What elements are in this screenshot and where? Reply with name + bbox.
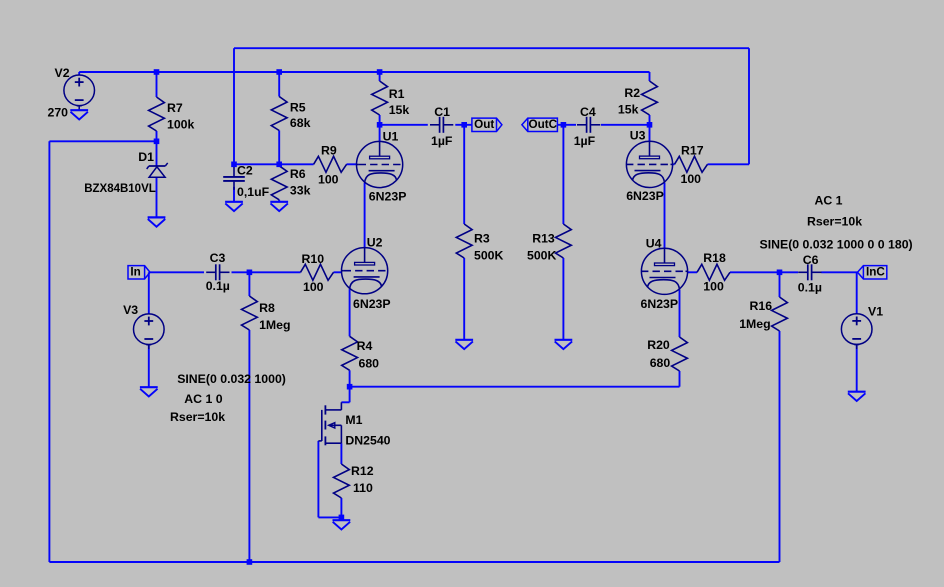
svg-text:100: 100 [681,172,702,186]
wire R9 to U1 grid [347,163,357,165]
wire M1 ground stub [340,517,342,520]
resistor R16 [772,297,788,331]
svg-text:0,1uF: 0,1uF [237,185,270,199]
wire right loop vertical x=749 [748,48,750,164]
svg-text:SINE(0 0.032 1000 0 0 180): SINE(0 0.032 1000 0 0 180) [760,238,913,252]
port flag OutC [522,118,558,131]
component value and name labels [48,66,913,495]
ground under V2 [70,110,88,119]
svg-text:R1: R1 [389,87,405,101]
triode U1 [356,141,403,187]
wire R4 to drain junction [349,370,351,386]
wire R8 to bottom rail [248,330,250,562]
wire top rail B+ y=72 [79,71,649,73]
svg-text:U1: U1 [383,130,399,144]
svg-text:U3: U3 [630,129,646,143]
wire R10 to U2 grid [334,271,342,273]
wire R5 top stub [278,72,280,97]
wire C2 bottom stub [233,187,235,202]
svg-text:R2: R2 [624,86,640,100]
ground under C2 [225,202,243,211]
svg-text:500K: 500K [474,249,504,263]
svg-text:AC 1: AC 1 [815,194,843,208]
wire V1 to ground [856,345,858,392]
svg-text:15k: 15k [389,103,410,117]
junction R6 grid [276,162,282,168]
svg-text:DN2540: DN2540 [345,433,390,447]
ground under V1 [848,392,866,401]
wire InC drop to V1 [856,272,858,314]
svg-text:1Meg: 1Meg [739,317,770,331]
wire U1 cathode to U2 plate [364,183,366,248]
svg-text:68k: 68k [290,116,311,130]
ground under R13 [555,340,573,349]
wire U4 grid to R18 [688,271,698,273]
svg-text:BZX84B10VL: BZX84B10VL [84,183,156,195]
wire R16 top stub [779,272,781,297]
svg-text:C4: C4 [580,105,596,119]
wire In flag to C3 [149,271,204,273]
svg-text:6N23P: 6N23P [641,297,679,311]
resistor R10 [301,264,334,280]
svg-text:R13: R13 [532,232,555,246]
svg-text:6N23P: 6N23P [626,189,664,203]
capacitor C6 [798,264,821,280]
wire R2 bottom stub [649,115,651,125]
wire C6 junction feed [780,271,799,273]
svg-text:0.1µ: 0.1µ [206,279,230,293]
svg-text:C2: C2 [237,164,253,178]
junction D1 R7 [154,139,160,145]
svg-text:R12: R12 [351,464,374,478]
triode U2 [341,248,388,294]
wire U1 plate lead [379,125,381,142]
svg-text:R4: R4 [357,339,373,353]
wire U4 cathode to R20 [679,290,681,337]
wire R5 bottom stub [278,131,280,165]
zener diode D1 [147,163,168,177]
wire left rail vertical x=49.4 [48,141,50,562]
ground under M1 [333,520,351,529]
capacitor C1 [430,117,453,133]
resistor R3 [456,224,472,258]
wire R13 drop x=563.4 [562,125,564,224]
junction R18 C6 R16 [777,270,783,276]
port flag Out [472,118,502,131]
resistor R6 [271,166,287,200]
wire C4 to R2 y=124.8 [601,124,650,126]
resistor R1 [372,81,388,115]
svg-text:100: 100 [703,280,724,294]
wire C2 top stub [233,163,235,166]
wire M1 drain jog horizontal [341,401,349,403]
wire M1 gate drop x=318.4 [317,441,319,518]
svg-text:270: 270 [48,105,69,119]
wire bottom rail y=562 [49,561,779,563]
wire R18 to C6 junction [730,271,780,273]
wire C6 to InC flag [821,271,857,273]
junction R4 M1 drain [347,384,353,390]
svg-text:R7: R7 [167,101,183,115]
resistor R9 [314,156,347,172]
junction R1 top [377,69,383,75]
wire R13 to ground [562,258,564,340]
wire V3 to ground [148,345,150,387]
svg-text:R20: R20 [647,338,670,352]
svg-text:100k: 100k [167,117,195,131]
wire R16 to bottom rail [779,331,781,562]
wire R17 to right loop [708,163,750,165]
wire R1 top stub [379,72,381,81]
resistor R13 [556,224,572,258]
wire U3 grid to R17 [673,163,675,165]
junction R1 U1 plate [377,122,383,128]
resistor R5 [271,97,287,131]
junction R7 top [154,69,160,75]
svg-text:OutC: OutC [529,118,558,131]
svg-text:SINE(0 0.032 1000): SINE(0 0.032 1000) [177,372,286,386]
port flag InC [858,266,887,279]
resistor R8 [242,296,258,330]
svg-text:R6: R6 [290,167,306,181]
svg-text:680: 680 [359,357,380,371]
wire R12 bottom stub [340,498,342,517]
junction C3 R8 [247,270,253,276]
svg-text:0.1µ: 0.1µ [798,280,822,294]
svg-text:100: 100 [303,280,324,294]
ground under D1 [148,217,166,226]
wire V2 top stub [78,72,80,75]
resistor R4 [342,336,358,370]
svg-text:R9: R9 [321,144,337,158]
wire R2 top stub [649,72,651,81]
ground under R6 [270,202,288,211]
svg-text:C1: C1 [434,105,450,119]
svg-text:R10: R10 [302,252,325,266]
wire R3 to ground [463,258,465,340]
voltage source V2 [64,75,95,110]
resistor R7 [149,97,165,131]
junction C1 Out [461,122,467,128]
resistor R20 [672,337,688,371]
svg-text:33k: 33k [290,183,311,197]
junction C2 grid [231,162,237,168]
wire OutC junction to C4 [557,124,576,126]
svg-text:C6: C6 [803,253,819,267]
svg-text:In: In [130,265,140,278]
svg-text:R5: R5 [290,100,306,114]
svg-text:V1: V1 [868,304,883,318]
svg-text:D1: D1 [138,150,154,164]
wire grid rail C2-R9 y=164.3 [234,163,314,165]
wire R7 top stub [156,72,158,97]
junction R8 bottom rail [247,559,253,565]
wire R3 drop x=464.2 [463,125,465,224]
port flag In [128,266,150,279]
wire In flag drop to V3 [148,272,150,314]
ground under V3 [140,387,158,396]
svg-text:Rser=10k: Rser=10k [807,215,862,229]
wire D1 top stub [156,141,158,166]
wire second rail y=48 [234,47,749,49]
svg-text:V2: V2 [55,66,70,80]
svg-text:1µF: 1µF [431,134,453,148]
svg-text:100: 100 [318,173,339,187]
svg-text:R3: R3 [474,232,490,246]
wire R8 top stub [248,272,250,296]
svg-text:InC: InC [866,265,885,278]
wire U2 cathode to R4 [349,289,351,336]
svg-text:M1: M1 [345,413,362,427]
wire R7 bottom stub [156,131,158,141]
wire U3 plate lead [649,125,651,142]
wire D1 junction to left rail y=141.3 [49,140,156,142]
svg-text:Out: Out [474,118,494,131]
wire U3 cathode to U4 plate [664,183,666,249]
junction OutC C4 [561,122,567,128]
resistor R2 [642,81,658,115]
svg-text:AC 1 0: AC 1 0 [184,392,222,406]
resistor R17 [675,156,708,172]
triode U4 [641,248,688,294]
junction M1 ground [339,515,345,521]
svg-text:680: 680 [650,356,671,370]
wire C3 to R8 junction [232,271,250,273]
capacitor C3 [206,264,229,280]
svg-text:U4: U4 [646,236,662,250]
wire M1 source to R12 [340,443,342,464]
resistor R18 [697,264,730,280]
wire R20 bottom stub [679,371,681,387]
voltage source V1 [841,314,872,349]
capacitor C2 [223,167,245,190]
svg-text:6N23P: 6N23P [353,297,391,311]
svg-text:R8: R8 [259,301,275,315]
junction R5 top [276,69,282,75]
wire R1 bottom stub [379,115,381,125]
svg-text:U2: U2 [367,236,383,250]
svg-text:R17: R17 [681,143,704,157]
svg-text:1µF: 1µF [574,134,596,148]
svg-text:R16: R16 [750,299,773,313]
wire cathode return rail y=386.7 [350,386,680,388]
voltage source V3 [134,314,165,349]
wire gate to source ground link [318,516,341,518]
ground under R3 [455,340,473,349]
wire R1 junction to C1 y=124.8 [380,124,428,126]
svg-text:15k: 15k [618,102,639,116]
wire M1 drain jog vertical [349,387,351,403]
svg-text:6N23P: 6N23P [369,190,407,204]
wire C1 to Out junction [455,124,472,126]
wire D1 bottom stub [156,177,158,217]
junction R2 U3 plate [647,122,653,128]
capacitor C4 [577,117,600,133]
svg-text:C3: C3 [210,251,226,265]
port flag texts [130,118,885,278]
transistor M1 [318,402,341,445]
svg-text:500K: 500K [527,249,557,263]
svg-text:Rser=10k: Rser=10k [170,410,225,424]
wire C2 feed vertical x=234 [233,48,235,164]
wire R6 bottom stub [278,200,280,202]
svg-text:1Meg: 1Meg [259,318,290,332]
wire R8 junction to R10 [249,271,300,273]
svg-text:R18: R18 [703,251,726,265]
resistor R12 [334,464,350,498]
svg-text:110: 110 [353,481,373,495]
svg-text:V3: V3 [123,303,138,317]
triode U3 [626,141,673,187]
